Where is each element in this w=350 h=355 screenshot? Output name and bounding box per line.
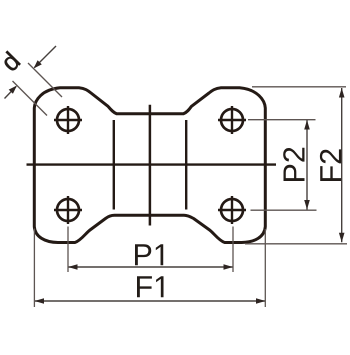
- F2 extension line bottom: [245, 243, 347, 245]
- F2 label: [320, 149, 341, 181]
- P2 extension line top: [248, 119, 316, 121]
- plate outline: [34, 88, 265, 243]
- d dimension arrow lower: [5, 86, 18, 99]
- center vertical line: [149, 105, 152, 226]
- P1 extension line left: [67, 227, 69, 273]
- P2 dimension line: [304, 120, 310, 210]
- hole top-left: [54, 106, 82, 134]
- P2 label: [283, 148, 304, 181]
- F2 dimension line: [339, 88, 345, 242]
- d tangent extension line lower: [13, 81, 48, 116]
- P1 dimension line: [68, 264, 233, 270]
- F1 label: [137, 276, 164, 297]
- hole bottom-left: [54, 196, 82, 224]
- F1 extension line right: [264, 229, 266, 307]
- hole top-right: [218, 106, 246, 134]
- d tangent extension line upper: [28, 63, 62, 97]
- F2 extension line top: [252, 86, 346, 88]
- inner vertical line left: [113, 120, 115, 210]
- F1 extension line left: [33, 229, 35, 308]
- horizontal center line: [27, 163, 277, 165]
- P1 label: [135, 244, 163, 265]
- d dimension arrow upper: [34, 46, 57, 69]
- d label: [0, 51, 21, 73]
- P2 extension line bottom: [251, 209, 317, 211]
- P1 extension line right: [232, 227, 234, 273]
- hole bottom-right: [218, 196, 246, 224]
- inner vertical line right: [185, 120, 187, 210]
- F1 dimension line: [35, 298, 266, 304]
